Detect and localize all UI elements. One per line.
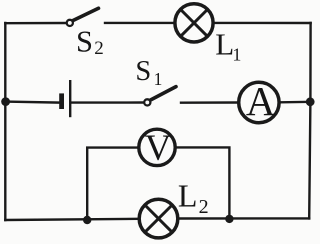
svg-text:L: L: [178, 178, 198, 214]
wire middle between battery and switch S1: [71, 101, 142, 103]
wire top left (left corner to switch S2): [5, 22, 65, 25]
wire top right (lamp L1 to right corner): [215, 22, 311, 25]
wire middle left (left node to battery): [5, 102, 59, 103]
wire top middle (switch S2 to lamp L1): [105, 22, 173, 24]
battery: long thin positive plate: [69, 80, 71, 117]
svg-text:S: S: [76, 24, 93, 58]
ammeter U1: [239, 82, 279, 122]
node bottom left (voltmeter branch joins bottom wire): [83, 216, 91, 224]
svg-text:1: 1: [232, 45, 241, 65]
wire voltmeter branch left vertical: [87, 148, 137, 220]
wire right vertical lower (middle node to bottom corner): [309, 102, 310, 219]
node bottom right (voltmeter branch joins bottom wire): [225, 215, 233, 223]
wire left vertical: [4, 23, 6, 220]
switch S1: [144, 87, 176, 106]
node right (ammeter branch joins right wire): [306, 97, 315, 106]
svg-text:A: A: [246, 78, 276, 124]
svg-text:2: 2: [199, 196, 209, 218]
switch S2: [67, 8, 99, 26]
voltmeter U2: [139, 129, 175, 165]
wire right vertical upper (top corner to middle node): [309, 23, 312, 102]
svg-text:1: 1: [154, 69, 163, 89]
svg-text:S: S: [135, 56, 151, 87]
battery: short thick negative plate: [59, 93, 64, 109]
lamp L1: [175, 4, 213, 42]
wire middle between ammeter and right node: [281, 101, 311, 104]
lamp L2: [139, 199, 178, 238]
wire middle between switch S1 and ammeter: [181, 101, 237, 104]
svg-text:V: V: [145, 128, 172, 169]
node left (battery branch joins left wire): [1, 97, 10, 106]
svg-text:L: L: [215, 27, 234, 62]
wire bottom right of lamp L2: [179, 217, 309, 220]
wire voltmeter branch right segment: [177, 147, 229, 219]
wire bottom (left corner through L2 to right corner): [5, 219, 138, 220]
svg-text:2: 2: [94, 38, 104, 59]
